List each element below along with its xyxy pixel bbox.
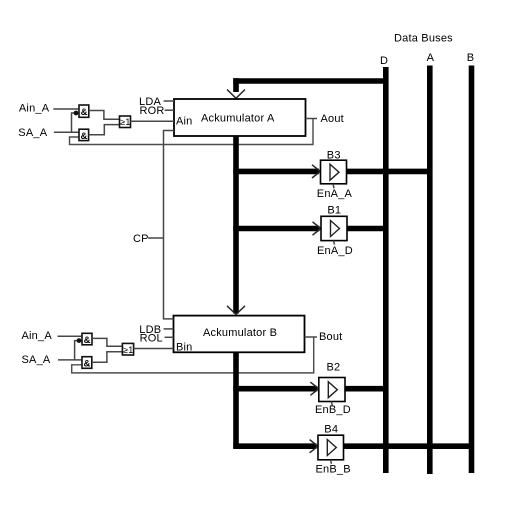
tri-state buffer B4	[318, 435, 344, 460]
AND gate A2	[79, 129, 89, 142]
wire: internal bus vertical segment below Ackumulator B	[233, 353, 239, 449]
wire: B2 input branch	[233, 386, 317, 392]
wire SA_A lower	[58, 359, 82, 361]
svg-text:EnB_B: EnB_B	[316, 463, 351, 475]
Ackumulator B box	[174, 316, 305, 353]
svg-text:Ackumulator A: Ackumulator A	[201, 113, 275, 125]
wire: internal bus vertical segment above Ackumulator A	[233, 78, 239, 92]
wire: clock line from Ackumulator A to Ackumulator B	[164, 131, 175, 319]
svg-text:B4: B4	[324, 423, 338, 435]
wire: branch SA_A to AND B1 second input	[75, 341, 82, 360]
wire: B1 output to bus D	[347, 226, 388, 232]
svg-text:A: A	[427, 52, 435, 64]
OR gate B	[122, 343, 133, 355]
svg-text:&: &	[84, 335, 91, 346]
bus B	[469, 66, 475, 474]
wire: OR B output to Bin	[134, 348, 174, 350]
arrow into Ackumulator A	[227, 90, 245, 99]
arrowhead B1 input	[313, 222, 321, 235]
svg-text:Bin: Bin	[176, 342, 193, 354]
wire SA_A	[54, 131, 79, 133]
svg-text:B: B	[467, 52, 475, 64]
wire: internal bus vertical segment between accumulators	[233, 136, 239, 314]
arrow into Ackumulator B	[227, 306, 245, 315]
enable stub B4	[331, 460, 332, 464]
arrowhead B2 input	[310, 382, 318, 395]
wire LDA	[164, 100, 174, 102]
wire: feedback from Aout to gate A2	[70, 119, 314, 145]
wire: B1 input branch	[233, 226, 319, 232]
wire: AND B1 output to OR B	[92, 338, 122, 346]
wire: branch SA_A to AND1 second input	[72, 113, 80, 132]
svg-text:EnB_D: EnB_D	[315, 404, 351, 416]
svg-text:≥1: ≥1	[120, 117, 130, 127]
svg-text:ROR: ROR	[140, 105, 165, 117]
wire: thick branch from bus D to internal bus (top)	[233, 78, 388, 84]
svg-text:EnA_D: EnA_D	[317, 245, 353, 257]
svg-text:B3: B3	[327, 150, 341, 162]
tri-state buffer B1	[321, 216, 347, 240]
svg-text:D: D	[380, 55, 388, 67]
svg-text:Data Buses: Data Buses	[394, 33, 453, 45]
wire Ain_A	[53, 108, 79, 110]
svg-text:Bout: Bout	[319, 331, 342, 343]
wire Bout	[305, 336, 318, 338]
tri-state buffer B2	[319, 378, 345, 402]
wire LDB	[164, 328, 174, 330]
arrowhead B4 input	[310, 440, 318, 453]
wire: AND A2 output to OR A	[89, 125, 120, 135]
enable stub B2	[331, 402, 332, 406]
svg-text:&: &	[81, 131, 88, 142]
enable stub B3	[333, 184, 334, 189]
wire ROL	[165, 336, 174, 338]
wire CP	[148, 237, 164, 239]
wire: OR A output to Ain	[131, 120, 175, 122]
wire: feedback from Bout to gate B2	[72, 337, 314, 373]
svg-text:Ain_A: Ain_A	[19, 103, 50, 115]
wire Ain_A lower	[58, 335, 83, 337]
svg-text:Aout: Aout	[321, 113, 344, 125]
wire: B4 output to bus B	[344, 443, 474, 449]
AND gate A1	[79, 105, 89, 118]
wire: B2 output to bus D	[345, 386, 388, 392]
wire: AND B2 output to OR B	[92, 352, 123, 363]
svg-text:B1: B1	[327, 205, 341, 217]
wire: B3 input branch	[233, 169, 319, 175]
bus A	[427, 66, 433, 475]
svg-text:&: &	[81, 107, 88, 118]
svg-text:Ain: Ain	[176, 116, 193, 128]
AND gate B2	[82, 357, 92, 370]
svg-text:&: &	[84, 358, 91, 369]
wire Aout	[306, 118, 318, 120]
bus D	[383, 67, 389, 473]
svg-text:EnA_A: EnA_A	[317, 188, 353, 200]
svg-text:SA_A: SA_A	[22, 354, 51, 366]
wire ROR	[165, 109, 174, 111]
Ackumulator A box	[174, 99, 306, 136]
AND gate B1	[82, 333, 92, 346]
arrowhead B3 input	[312, 165, 320, 178]
OR gate A	[120, 116, 131, 128]
svg-text:ROL: ROL	[140, 333, 163, 345]
wire: B3 output to bus A	[347, 169, 433, 175]
junction dot (upper)	[74, 111, 79, 116]
svg-text:SA_A: SA_A	[18, 127, 47, 139]
svg-text:B2: B2	[327, 362, 341, 374]
svg-text:Ain_A: Ain_A	[22, 330, 53, 342]
wire: B4 input branch	[233, 443, 316, 449]
wire: AND A1 output to OR A	[89, 111, 120, 120]
svg-text:Ackumulator B: Ackumulator B	[203, 327, 277, 339]
svg-text:≥1: ≥1	[123, 345, 133, 355]
tri-state buffer B3	[321, 160, 347, 184]
junction dot (lower)	[77, 338, 82, 343]
svg-text:CP: CP	[133, 233, 149, 245]
enable stub B1	[334, 241, 335, 245]
